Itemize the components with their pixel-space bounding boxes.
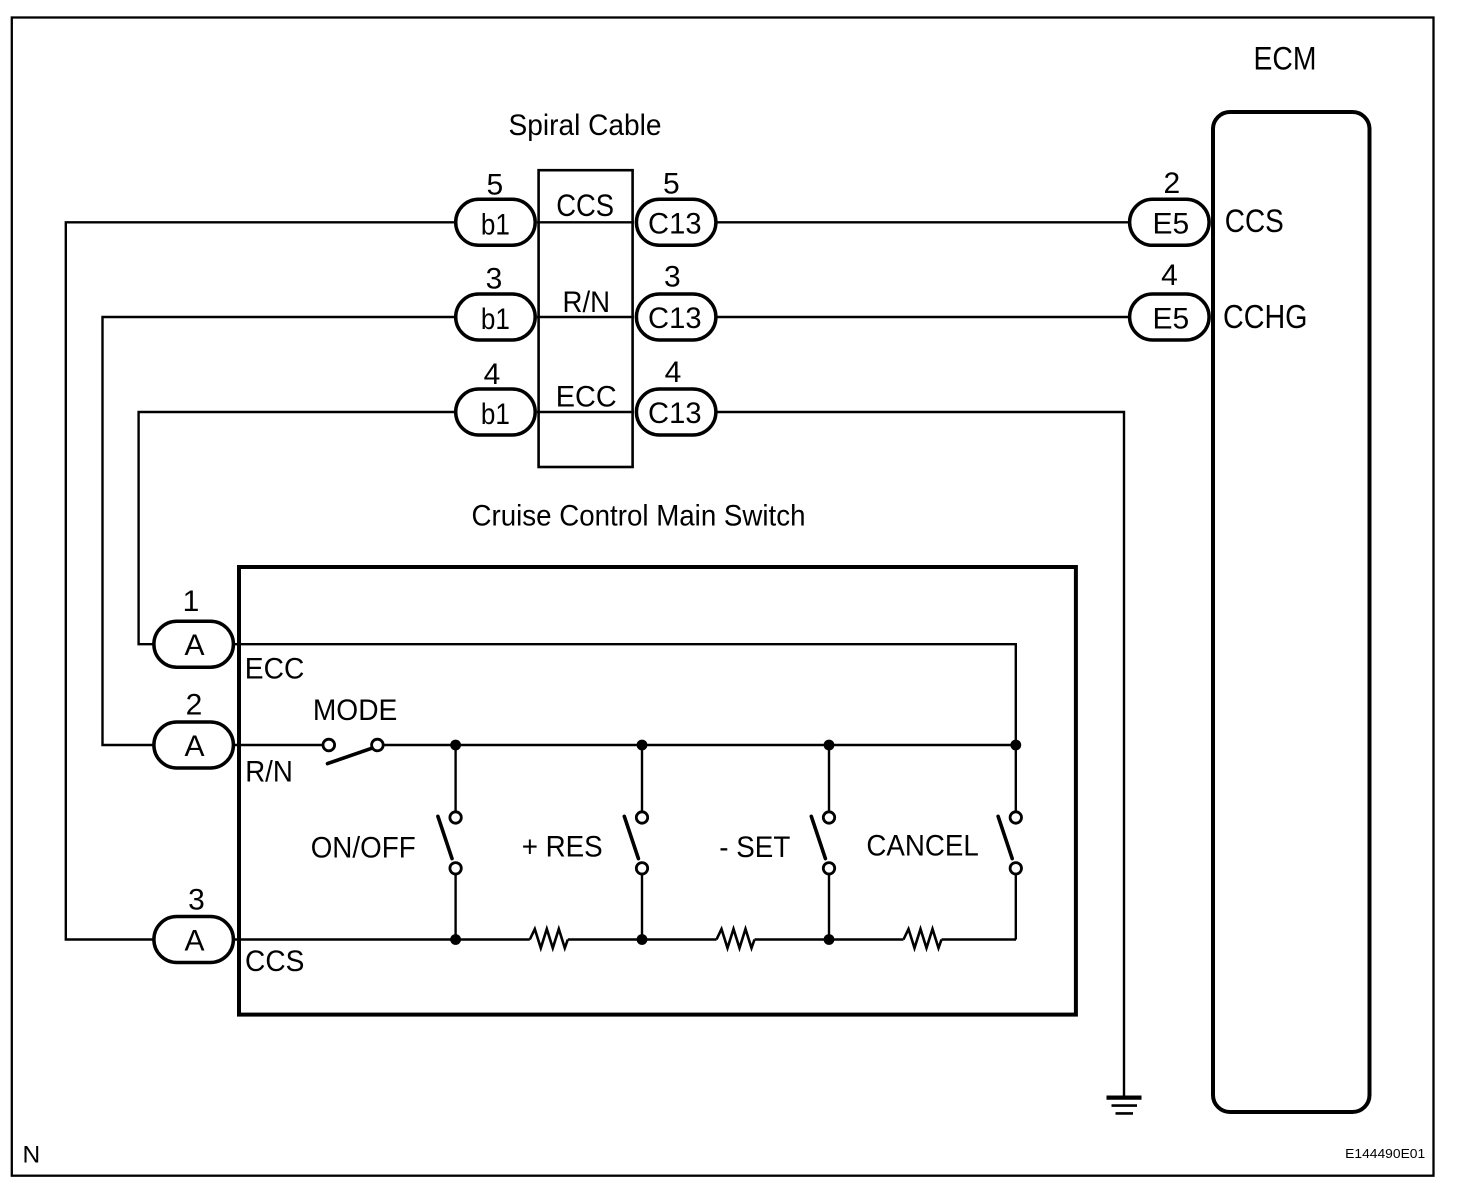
wire R/N rail left segment (A-2 to MODE switch) (235, 744, 323, 746)
label ECC in spiral box (556, 381, 617, 414)
svg-text:- SET: - SET (719, 831, 790, 864)
svg-text:CCS: CCS (1225, 203, 1284, 239)
resistor 3 (-SET to CANCEL) (904, 929, 942, 948)
svg-text:ECM: ECM (1254, 40, 1317, 76)
svg-text:CCHG: CCHG (1223, 298, 1308, 335)
connector E5 pin 2 (1130, 199, 1210, 245)
switch ON/OFF (438, 745, 461, 940)
spiral cable box (539, 170, 633, 467)
svg-text:b1: b1 (481, 398, 510, 431)
svg-text:C13: C13 (648, 397, 702, 430)
pin number 4 (C13) (665, 356, 682, 389)
connector C13 pin 4 (636, 389, 716, 435)
net label CCS (A-3) (245, 945, 304, 978)
junction -SET bottom (824, 934, 835, 945)
svg-text:A: A (184, 730, 204, 763)
label CCS in spiral box (556, 187, 614, 223)
label R/N in spiral box (563, 286, 611, 319)
svg-text:4: 4 (1161, 259, 1178, 292)
net label CCS inside ECM (1225, 203, 1284, 239)
svg-text:MODE: MODE (313, 694, 398, 727)
wire C13-5 to E5-2 (CCS) (716, 221, 1129, 223)
svg-text:2: 2 (1163, 167, 1180, 200)
junction ON/OFF top (450, 740, 461, 751)
svg-text:4: 4 (665, 356, 682, 389)
svg-text:2: 2 (186, 688, 203, 721)
svg-text:CANCEL: CANCEL (866, 829, 978, 862)
svg-text:A: A (184, 629, 204, 662)
wire ECC through spiral cable box (537, 411, 634, 413)
svg-text:3: 3 (664, 260, 681, 293)
label MODE (313, 694, 398, 727)
svg-text:N: N (23, 1141, 41, 1168)
connector C13 pin 3 (636, 294, 716, 340)
svg-text:5: 5 (663, 168, 680, 201)
pin number 3 (C13) (664, 260, 681, 293)
svg-text:C13: C13 (648, 207, 702, 240)
svg-text:Cruise Control Main Switch: Cruise Control Main Switch (472, 499, 806, 532)
wire ECC row: b1-4 left to A-1 (139, 412, 454, 644)
resistor 1 (ON/OFF to +RES) (530, 929, 568, 948)
connector E5 pin 4 (1130, 294, 1210, 340)
wire CCS through spiral cable box (537, 221, 634, 223)
label CANCEL (866, 829, 978, 862)
connector b1 pin 3 (456, 294, 536, 340)
svg-text:C13: C13 (648, 302, 702, 335)
wire CCS bottom rail segments (235, 938, 1016, 940)
svg-text:ECC: ECC (245, 652, 304, 685)
switch CANCEL (998, 750, 1021, 940)
svg-text:3: 3 (486, 263, 503, 296)
switch + RES (624, 745, 647, 940)
label - SET (719, 831, 790, 864)
junction -SET top (824, 740, 835, 751)
document number E144490E01 (1345, 1146, 1425, 1161)
pin number 5 (b1) (486, 168, 503, 201)
svg-text:ECC: ECC (556, 381, 617, 414)
svg-text:3: 3 (188, 883, 205, 916)
junction ON/OFF bottom (450, 934, 461, 945)
pin number 4 (b1) (484, 358, 501, 391)
ground (1107, 1098, 1142, 1114)
note N (23, 1141, 41, 1168)
svg-text:1: 1 (183, 585, 200, 618)
connector A pin 2 (154, 722, 234, 768)
label Cruise Control Main Switch (472, 499, 806, 532)
svg-text:A: A (184, 924, 204, 957)
resistor 2 (+RES to -SET) (717, 929, 755, 948)
wire R/N rail right segment (MODE to CANCEL branch) (383, 744, 1016, 746)
net label R/N (A-2) (245, 756, 293, 789)
connector A pin 1 (154, 621, 234, 667)
junction CANCEL top (1010, 740, 1021, 751)
net label ECC (A-1) (245, 652, 304, 685)
svg-text:CCS: CCS (245, 945, 304, 978)
pin number 3 (A) (188, 883, 205, 916)
svg-text:R/N: R/N (245, 756, 293, 789)
wire C13-3 to E5-4 (CCHG) (716, 316, 1129, 318)
connector C13 pin 5 (636, 199, 716, 245)
wire R/N through spiral cable box (537, 316, 634, 318)
pin number 4 (E5) (1161, 259, 1178, 292)
junction +RES bottom (637, 934, 648, 945)
label ECM (1254, 40, 1317, 76)
cruise control main switch box (239, 567, 1076, 1015)
wire C13-4 (ECC) to ground (716, 412, 1124, 1096)
svg-text:R/N: R/N (563, 286, 611, 319)
switch - SET (811, 745, 834, 940)
connector b1 pin 5 (456, 199, 536, 245)
svg-text:+ RES: + RES (522, 830, 603, 863)
svg-text:CCS: CCS (556, 187, 614, 223)
svg-text:Spiral Cable: Spiral Cable (509, 109, 662, 142)
svg-text:5: 5 (486, 168, 503, 201)
wire CCS row: b1-5 left to A-3 (down left side) (66, 222, 454, 939)
pin number 2 (E5) (1163, 167, 1180, 200)
svg-text:E144490E01: E144490E01 (1345, 1146, 1425, 1161)
connector b1 pin 4 (456, 389, 536, 435)
label Spiral Cable (509, 109, 662, 142)
pin number 3 (b1) (486, 263, 503, 296)
svg-text:b1: b1 (481, 209, 510, 242)
ECM box (1213, 112, 1370, 1112)
svg-text:b1: b1 (481, 303, 510, 336)
connector A pin 3 (154, 917, 234, 963)
wire ECC inside switch box (A-1 to cancel branch) (235, 644, 1016, 745)
svg-text:E5: E5 (1152, 208, 1189, 241)
switch MODE (323, 739, 383, 763)
junction +RES top (637, 740, 648, 751)
pin number 5 (C13) (663, 168, 680, 201)
net label CCHG inside ECM (1223, 298, 1308, 335)
svg-text:ON/OFF: ON/OFF (311, 832, 416, 865)
svg-text:E5: E5 (1152, 302, 1189, 335)
label + RES (522, 830, 603, 863)
pin number 1 (A) (183, 585, 200, 618)
wire R/N row: b1-3 left to A-2 (103, 317, 455, 745)
svg-text:4: 4 (484, 358, 501, 391)
label ON/OFF (311, 832, 416, 865)
pin number 2 (A) (186, 688, 203, 721)
